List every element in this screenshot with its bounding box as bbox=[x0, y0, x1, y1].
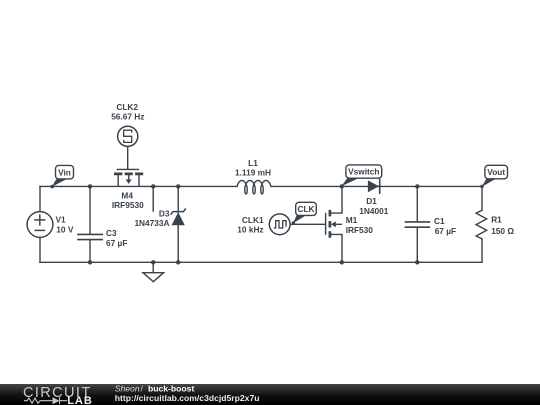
diode D1 bbox=[368, 179, 380, 194]
svg-text:R1: R1 bbox=[491, 214, 502, 224]
wire C3 branch top bbox=[89, 186, 91, 234]
svg-text:Vin: Vin bbox=[58, 167, 71, 177]
wire bottom rail bbox=[40, 261, 482, 263]
svg-text:L1: L1 bbox=[248, 158, 258, 168]
wire C3 branch bottom bbox=[89, 240, 91, 262]
svg-text:1.119 mH: 1.119 mH bbox=[235, 168, 271, 178]
svg-text:D1: D1 bbox=[366, 196, 377, 206]
net flag Vswitch bbox=[341, 165, 381, 186]
inductor L1 bbox=[237, 181, 271, 194]
wire top rail left bbox=[40, 185, 237, 187]
wire V1 branch bottom bbox=[39, 237, 41, 262]
svg-text:Vout: Vout bbox=[487, 167, 505, 177]
clock source CLK1 bbox=[269, 214, 290, 235]
wire R1 branch top bbox=[481, 186, 483, 210]
capacitor C1 bbox=[405, 222, 431, 227]
wire D3 branch top bbox=[177, 186, 179, 212]
svg-text:C3: C3 bbox=[106, 228, 117, 238]
zener diode D3 bbox=[171, 209, 186, 226]
voltage source V1 bbox=[27, 212, 53, 238]
svg-text:CLK2: CLK2 bbox=[116, 102, 138, 112]
wire CLK2 to M4 gate bbox=[127, 146, 129, 168]
svg-text:CLK: CLK bbox=[297, 204, 314, 214]
svg-text:C1: C1 bbox=[434, 216, 445, 226]
svg-text:CLK1: CLK1 bbox=[242, 215, 264, 225]
wire D3 branch bottom bbox=[177, 225, 179, 262]
transistor M1 N-MOSFET bbox=[326, 210, 342, 238]
logo zigzag diode bbox=[24, 398, 52, 403]
svg-text:10 V: 10 V bbox=[56, 224, 74, 234]
clock source CLK2 bbox=[118, 126, 138, 146]
svg-text:150 Ω: 150 Ω bbox=[491, 226, 514, 236]
svg-text:Vswitch: Vswitch bbox=[348, 167, 379, 177]
svg-text:V1: V1 bbox=[56, 215, 67, 225]
wire M1 drain to Vswitch node bbox=[330, 186, 342, 213]
svg-text:10 kHz: 10 kHz bbox=[237, 225, 263, 235]
net flag Vin bbox=[50, 165, 73, 188]
svg-text:1N4733A: 1N4733A bbox=[134, 218, 169, 228]
svg-text:67 µF: 67 µF bbox=[106, 238, 127, 248]
svg-text:1N4001: 1N4001 bbox=[359, 206, 388, 216]
svg-text:IRF9530: IRF9530 bbox=[112, 200, 144, 210]
wire stub node A bbox=[152, 186, 154, 211]
net flag Vout bbox=[480, 165, 507, 188]
junction dots bbox=[88, 184, 420, 264]
svg-text:http://circuitlab.com/c3dcjd5r: http://circuitlab.com/c3dcjd5rp2x7u bbox=[115, 393, 260, 403]
capacitor C3 bbox=[77, 234, 103, 239]
transistor M4 P-MOSFET bbox=[114, 169, 143, 186]
wire R1 branch bottom bbox=[481, 239, 483, 262]
svg-text:LAB: LAB bbox=[67, 395, 93, 405]
svg-text:M4: M4 bbox=[121, 190, 133, 200]
svg-text:IRF530: IRF530 bbox=[346, 225, 374, 235]
wire M1 gate lead bbox=[290, 223, 325, 225]
resistor R1 bbox=[476, 210, 487, 239]
wire C1 branch bottom bbox=[416, 228, 418, 263]
wire ground stub bbox=[152, 262, 154, 272]
net flag CLK bbox=[292, 202, 317, 224]
svg-text:56.67 Hz: 56.67 Hz bbox=[111, 111, 144, 121]
footer bar bbox=[0, 384, 540, 405]
wire V1 branch top bbox=[39, 186, 41, 211]
svg-text:M1: M1 bbox=[346, 215, 358, 225]
wire top rail right bbox=[271, 185, 482, 187]
ground bbox=[143, 273, 164, 282]
svg-text:D3: D3 bbox=[159, 208, 170, 218]
svg-text:67 µF: 67 µF bbox=[435, 226, 456, 236]
wire C1 branch top bbox=[416, 186, 418, 221]
wire M1 source to bottom rail bbox=[330, 234, 342, 262]
